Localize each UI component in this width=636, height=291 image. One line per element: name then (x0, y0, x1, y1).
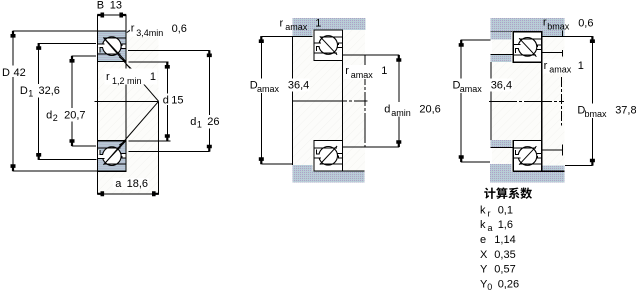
svg-text:26: 26 (207, 116, 219, 128)
svg-text:32,6: 32,6 (39, 85, 60, 97)
svg-text:amax: amax (285, 22, 308, 32)
svg-text:Y: Y (480, 264, 488, 276)
a extension line (158, 101, 160, 194)
hatch background (492, 32, 565, 171)
r_amax inner label right fig (542, 59, 574, 73)
axis dash-dot (292, 100, 368, 102)
svg-text:3,4min: 3,4min (136, 28, 163, 38)
svg-text:1: 1 (150, 71, 156, 83)
svg-text:r: r (488, 208, 491, 218)
svg-text:36,4: 36,4 (491, 79, 512, 91)
svg-text:k: k (480, 204, 486, 216)
svg-text:amax: amax (257, 84, 280, 94)
D1 dim arrow bottom (36, 153, 41, 160)
svg-text:a: a (488, 223, 493, 233)
Damax mid arrow bottom (259, 157, 264, 164)
svg-text:18,6: 18,6 (127, 178, 148, 190)
housing top slab (491, 18, 565, 32)
d dim arrow bottom (165, 134, 170, 141)
d2 dimension (72, 55, 96, 57)
svg-text:d: d (190, 116, 196, 128)
r34 label leader (127, 30, 131, 33)
right face extension line (125, 15, 127, 31)
Dbmax arrow top (590, 36, 595, 43)
Damax right arrow top (459, 40, 464, 47)
svg-text:1: 1 (315, 18, 321, 30)
a dim arrow left (97, 191, 104, 196)
B dim arrow left (97, 13, 104, 18)
svg-text:r: r (280, 17, 284, 29)
a dim arrow right (152, 191, 159, 196)
right face line between sections (541, 62, 543, 140)
svg-text:37,8: 37,8 (615, 105, 636, 117)
svg-text:X: X (480, 249, 488, 261)
housing shoulder face line (291, 36, 293, 165)
svg-text:d: d (384, 103, 390, 115)
housing bottom slab (490, 171, 565, 182)
svg-text:r: r (106, 71, 110, 83)
svg-text:0,6: 0,6 (578, 18, 593, 30)
d dim arrow top (165, 62, 170, 69)
svg-text:k: k (480, 219, 486, 231)
shaft spacer top (491, 55, 512, 62)
D dim arrow bottom (11, 164, 16, 171)
svg-text:0,26: 0,26 (498, 278, 519, 290)
B dimension line (98, 14, 127, 16)
d1 dim arrow top (207, 50, 212, 57)
housing bottom leg (490, 164, 512, 171)
svg-text:1,14: 1,14 (494, 234, 515, 246)
svg-text:amax: amax (549, 65, 572, 75)
contact angle line bottom (104, 101, 159, 164)
svg-text:20,7: 20,7 (64, 109, 85, 121)
D1 dim arrow top (36, 43, 41, 50)
svg-text:d: d (46, 109, 52, 121)
Damax right arrow bottom (459, 155, 464, 162)
Dbmax arrow bottom (590, 159, 595, 166)
shaft seat line bottom (314, 170, 365, 172)
d2 dim arrow top (70, 56, 75, 63)
svg-text:r: r (543, 17, 547, 29)
housing top slab (293, 18, 366, 30)
housing bottom slab (293, 171, 365, 182)
damin arrow top (396, 55, 401, 62)
top section (314, 30, 343, 61)
r_amax inner label (344, 65, 375, 79)
svg-text:0,1: 0,1 (498, 204, 513, 216)
svg-text:1: 1 (381, 65, 387, 77)
D dimension (13, 30, 97, 32)
svg-text:1: 1 (578, 60, 584, 72)
housing top leg (293, 30, 313, 36)
top section (513, 32, 542, 63)
d1 dimension (128, 50, 209, 52)
svg-text:amax: amax (460, 84, 483, 94)
svg-text:1: 1 (197, 120, 202, 130)
right face line between sections (341, 60, 343, 140)
spacer face line (490, 62, 492, 140)
r12 label leader (126, 64, 133, 71)
svg-text:bmax: bmax (547, 22, 570, 32)
hatch background left figure (98, 31, 159, 194)
housing bottom right strip (542, 166, 565, 172)
svg-text:36,4: 36,4 (288, 79, 309, 91)
svg-text:13: 13 (110, 0, 122, 12)
left face extension line (97, 15, 99, 194)
svg-text:r: r (131, 23, 135, 35)
d2 dim arrow bottom (70, 139, 75, 146)
svg-text:1,2 min: 1,2 min (112, 76, 142, 86)
svg-text:0,6: 0,6 (172, 23, 187, 35)
d dimension (129, 61, 169, 63)
hatch background (292, 30, 365, 171)
contact angle line top (104, 38, 159, 101)
bearing top section (98, 31, 127, 62)
svg-text:D: D (2, 67, 10, 79)
svg-text:0,57: 0,57 (494, 264, 515, 276)
svg-text:D: D (20, 85, 28, 97)
housing top leg (491, 32, 512, 40)
svg-text:a: a (115, 178, 122, 190)
svg-text:r: r (544, 60, 548, 72)
svg-text:1,6: 1,6 (498, 219, 513, 231)
bearing bottom section (98, 141, 127, 172)
d_amin dimension (343, 54, 399, 56)
D1 dimension (39, 42, 96, 44)
B dim arrow right (119, 13, 126, 18)
d_b tick lines (542, 52, 563, 54)
svg-text:amax: amax (351, 70, 374, 80)
bottom section (314, 140, 343, 171)
a dimension (98, 193, 159, 195)
svg-text:e: e (480, 234, 486, 246)
svg-text:r: r (345, 65, 349, 77)
svg-text:2: 2 (53, 113, 58, 123)
d1 dim arrow bottom (207, 145, 212, 152)
shaft spacer bottom (491, 140, 512, 147)
D_bmax dimension (565, 35, 593, 37)
svg-text:amin: amin (391, 108, 411, 118)
axis dash-dot (489, 100, 564, 102)
housing bottom leg (293, 165, 313, 171)
vertical dash-dot shaft face (364, 55, 366, 147)
svg-text:1: 1 (28, 89, 33, 99)
svg-text:20,6: 20,6 (419, 103, 440, 115)
damin arrow bottom (396, 140, 401, 147)
bottom section (513, 141, 542, 172)
D_amax dimension (261, 35, 312, 37)
D dim arrow top (11, 31, 16, 38)
svg-text:B: B (97, 0, 104, 12)
svg-text:42: 42 (14, 67, 26, 79)
Damax mid arrow top (259, 36, 264, 43)
svg-text:0: 0 (487, 282, 492, 291)
svg-text:bmax: bmax (585, 109, 608, 119)
svg-text:d: d (163, 94, 169, 106)
svg-text:15: 15 (171, 94, 183, 106)
housing top right strip (542, 31, 565, 36)
vertical dash-dot right fig (560, 77, 562, 125)
axis line (95, 100, 159, 102)
D_amax dimension right fig (461, 39, 490, 41)
svg-text:0,35: 0,35 (494, 249, 515, 261)
